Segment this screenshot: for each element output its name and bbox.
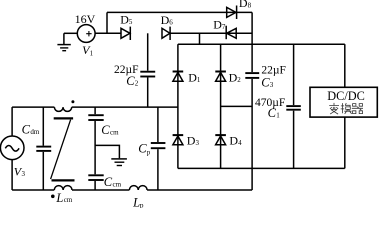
svg-text:D: D [213,17,222,31]
diode D2 [215,44,226,168]
polarity dot top [71,100,74,103]
wire DC/DC bottom lead [344,117,346,168]
Lcm core bottom bar [52,179,75,181]
svg-text:2: 2 [237,76,241,84]
polarity dot bottom [51,195,55,199]
svg-text:8: 8 [248,2,252,10]
svg-text:D: D [229,71,238,85]
svg-text:DC/DC: DC/DC [327,89,365,103]
svg-text:p: p [140,200,144,208]
diode D3 [173,135,184,145]
svg-text:4: 4 [238,139,242,147]
svg-text:16V: 16V [75,12,96,26]
svg-text:1: 1 [197,76,201,84]
ground (V1 ground) [57,33,70,50]
svg-text:cm: cm [113,180,122,188]
wire D6 to right vertical [170,32,252,34]
capacitor Ccm top [88,107,103,174]
capacitor C1 [286,44,301,168]
diode D1 [173,44,184,168]
svg-text:p: p [147,149,151,157]
label 变换器 (hand-drawn strokes) [329,103,363,114]
svg-text:dm: dm [30,128,40,136]
svg-text:1: 1 [90,49,94,57]
svg-text:D: D [187,134,196,148]
svg-text:3: 3 [270,81,274,89]
Lcm core top bar [54,117,73,119]
svg-text:D: D [239,0,248,10]
wire top rail [107,11,252,13]
capacitor C2 [140,33,155,107]
svg-text:C: C [101,123,110,137]
svg-text:L: L [55,191,63,205]
svg-text:D: D [120,13,129,27]
wire bridge bottom rail [178,167,345,169]
inductor Lp [129,186,147,190]
wire riser to top rail [106,12,108,33]
voltage source V3 [0,107,24,190]
capacitor Ccm bottom [88,175,103,190]
svg-text:2: 2 [135,80,139,88]
svg-text:cm: cm [64,196,73,204]
capacitor Cdm [36,107,51,190]
wire DC/DC top lead [344,44,346,87]
diode D8 [227,6,237,20]
svg-text:3: 3 [22,170,26,178]
svg-text:5: 5 [129,18,133,26]
wire filter top rail [12,106,178,108]
svg-text:3: 3 [196,139,200,147]
wire bridge top rail [178,43,345,45]
svg-text:D: D [229,134,238,148]
inductor Lcm top coil [54,107,71,111]
svg-text:6: 6 [169,18,173,26]
voltage source V1 [77,25,95,43]
wire bottom rail [12,189,252,191]
ground (mid filter) [95,145,127,165]
wire riser D7 line to bridge rail [199,33,201,44]
inductor Lcm bottom coil [54,186,72,190]
svg-text:D: D [161,13,170,27]
svg-text:cm: cm [110,129,119,137]
Lcm core diagonal [51,120,71,179]
capacitor C3 on right vertical [245,12,259,190]
svg-text:D: D [188,71,197,85]
diode D6 [162,27,170,40]
wire ground to V1 [64,32,77,34]
diode D7 [226,26,236,40]
svg-text:7: 7 [222,23,226,31]
diode D5 [121,27,130,40]
svg-text:1: 1 [276,112,280,120]
DC/DC converter box [310,87,377,117]
diode D4 [215,135,226,145]
wire V1 to D5 [95,32,121,34]
svg-text:C: C [22,123,31,137]
wire bridge right AC tap [221,105,253,107]
svg-text:C: C [104,175,113,189]
capacitor Cp [151,107,166,190]
